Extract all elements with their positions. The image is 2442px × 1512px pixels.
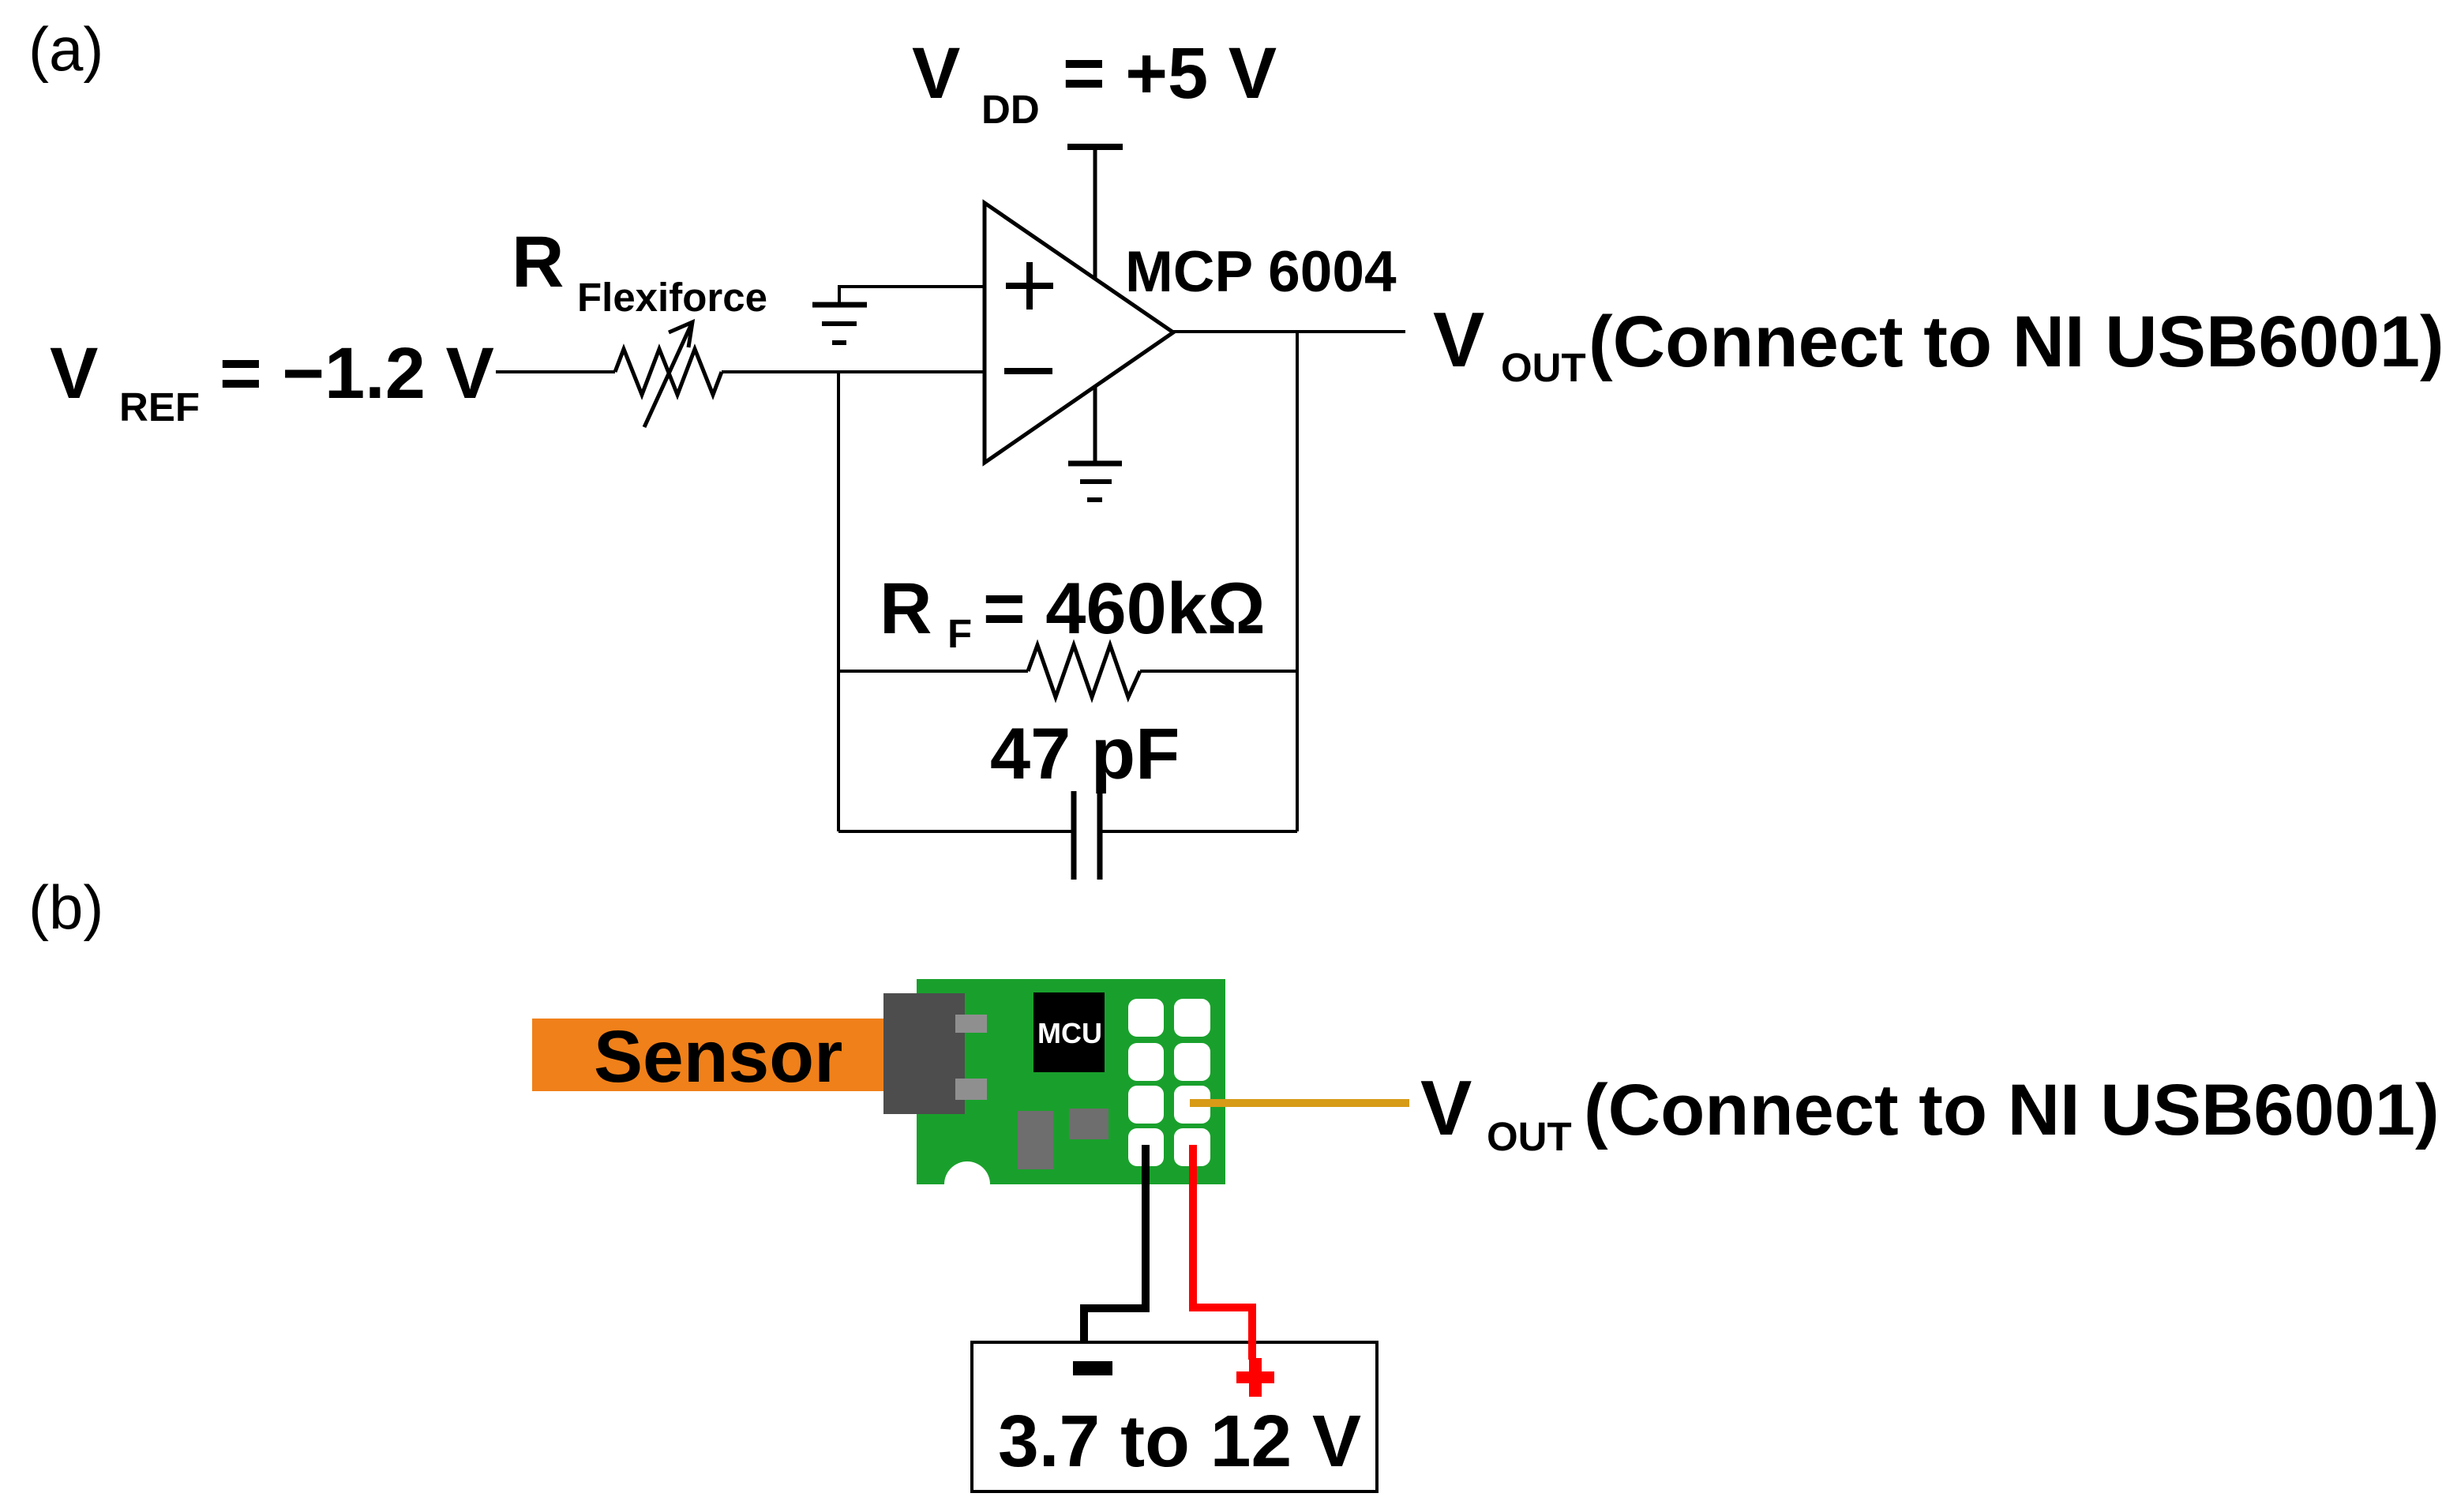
VOUT label (panel b) (1420, 1064, 2440, 1159)
svg-text:V: V (50, 333, 98, 414)
sensor flex cable (532, 1019, 889, 1091)
pad A2 (1128, 1043, 1164, 1081)
pad B1 (1174, 999, 1210, 1037)
resistor RFlexiforce (615, 322, 722, 427)
wire output (1173, 330, 1405, 333)
ground (noninverting input) (812, 305, 867, 343)
black wire negative (1084, 1145, 1146, 1344)
VDD supply bar (1067, 144, 1123, 150)
wire op-amp to lower ground (1093, 386, 1097, 461)
svg-text:MCU: MCU (1037, 1017, 1102, 1049)
pad A3 (1128, 1086, 1164, 1124)
connector tab upper (955, 1015, 987, 1033)
red wire positive (1193, 1145, 1252, 1360)
svg-text:(b): (b) (28, 872, 103, 942)
capacitor bottom wires (838, 830, 1071, 833)
svg-text:Sensor: Sensor (594, 1015, 842, 1097)
pad B2 (1174, 1043, 1210, 1081)
wire resistor to inverting input (722, 370, 985, 373)
pad A4 (1128, 1128, 1164, 1166)
wire noninverting input to ground (839, 287, 985, 303)
MCU chip (1033, 992, 1105, 1072)
svg-text:= 460kΩ: = 460kΩ (983, 568, 1266, 649)
pad B3 (1174, 1086, 1210, 1124)
svg-text:3.7 to 12 V: 3.7 to 12 V (998, 1400, 1361, 1482)
svg-text:47 pF: 47 pF (990, 714, 1180, 794)
connector tab lower (955, 1079, 987, 1100)
battery minus symbol (1073, 1361, 1112, 1375)
PCB board (917, 979, 1225, 1184)
svg-text:OUT: OUT (1501, 345, 1586, 390)
VOUT wire gold (1190, 1099, 1409, 1107)
wire feedback left vertical (837, 372, 840, 831)
svg-text:V: V (912, 33, 960, 114)
svg-text:V: V (1420, 1064, 1472, 1151)
svg-text:MCP 6004: MCP 6004 (1125, 240, 1397, 304)
smd component 2 (1069, 1109, 1108, 1139)
wire VDD to op-amp (1093, 150, 1097, 279)
wire VREF to resistor (496, 370, 615, 373)
op-amp U1 MCP 6004 (985, 203, 1173, 463)
svg-text:R: R (880, 568, 932, 649)
pad B4 (1174, 1128, 1210, 1166)
capacitor C 47pF plates (1074, 791, 1100, 880)
svg-text:F: F (947, 611, 972, 656)
svg-text:(a): (a) (28, 14, 103, 84)
resistor RF (1028, 645, 1140, 697)
svg-text:= −1.2 V: = −1.2 V (219, 333, 494, 414)
sensor connector (883, 993, 965, 1114)
PCB notch (944, 1161, 990, 1207)
svg-text:V: V (1433, 296, 1484, 383)
resistor RF label (880, 568, 1266, 656)
VDD label (912, 33, 1277, 132)
ground (below op-amp) (1068, 463, 1122, 500)
pad A1 (1128, 999, 1164, 1037)
node VREF label (50, 333, 494, 430)
battery box (972, 1342, 1377, 1491)
svg-text:(Connect to NI USB6001): (Connect to NI USB6001) (1584, 1070, 2440, 1150)
svg-text:Flexiforce: Flexiforce (577, 275, 767, 320)
svg-text:(Connect to NI USB6001): (Connect to NI USB6001) (1589, 302, 2442, 382)
wire output feedback vertical (1296, 332, 1299, 831)
svg-text:R: R (512, 222, 564, 302)
battery plus symbol (1236, 1358, 1274, 1397)
svg-text:= +5 V: = +5 V (1063, 33, 1277, 114)
resistor RF wires (838, 670, 1028, 673)
VOUT label (panel a) (1433, 296, 2442, 390)
resistor RFlexiforce label (512, 222, 767, 320)
svg-text:REF: REF (119, 385, 200, 430)
svg-text:OUT: OUT (1487, 1114, 1572, 1159)
smd component 1 (1018, 1111, 1053, 1169)
svg-text:DD: DD (981, 87, 1040, 132)
